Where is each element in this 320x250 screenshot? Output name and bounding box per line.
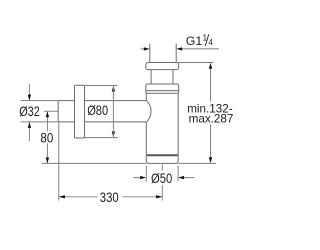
dim Ø50 arrow lines bbox=[133, 177, 194, 179]
arrowhead Ø32 bottom (points up) bbox=[28, 122, 31, 128]
svg-text:Ø80: Ø80 bbox=[87, 103, 108, 118]
trap body outline bbox=[146, 93, 178, 163]
arrowhead Ø32 top (points down) bbox=[28, 95, 31, 101]
union nut flange 1 (top) bbox=[146, 63, 179, 70]
extension line from pipe end down to 330 dim bbox=[58, 122, 60, 200]
bottom extension line right of body bbox=[179, 162, 217, 164]
center extension line below body bbox=[161, 164, 163, 200]
neck between flanges bbox=[151, 70, 173, 84]
inlet tailpiece pipe (top) bbox=[150, 44, 176, 63]
dim 80: centerline tick bbox=[44, 110, 58, 112]
dim 80: vertical dimension line bbox=[46, 112, 48, 164]
dim Ø80 extension lines bbox=[85, 86, 118, 138]
horizontal outlet pipe bbox=[58, 101, 146, 122]
wall escutcheon flange bbox=[75, 85, 85, 138]
dim min/max: top extension line bbox=[179, 62, 214, 64]
svg-text:G1: G1 bbox=[186, 34, 203, 48]
bottom extension line left of body bbox=[42, 162, 146, 164]
dim min/max: vertical dimension line bbox=[210, 64, 212, 163]
arrowhead Ø50 left (points right) bbox=[140, 176, 146, 179]
dim Ø80 vertical dimension line bbox=[112, 86, 114, 137]
dim 330 line bbox=[59, 196, 161, 198]
dim G: right leader line bbox=[182, 48, 220, 50]
arrowhead Ø80 bottom (points down) bbox=[112, 132, 115, 138]
dim G: left stub line bbox=[141, 48, 145, 50]
dim Ø50 extension ticks below body edges bbox=[146, 166, 178, 182]
svg-text:Ø32: Ø32 bbox=[19, 104, 40, 119]
arrowhead 80 top (points up) bbox=[46, 111, 49, 117]
arrowhead G right (points left) bbox=[176, 47, 182, 50]
cup joint thick line bbox=[147, 154, 178, 156]
union nut flange 2 bbox=[146, 84, 179, 93]
arrowhead Ø50 right (points left) bbox=[178, 176, 184, 179]
svg-text:Ø50: Ø50 bbox=[151, 171, 173, 186]
svg-text:80: 80 bbox=[40, 130, 53, 145]
dim Ø32 arrow tails bbox=[28, 84, 30, 141]
arrowhead minmax top (points up) bbox=[209, 63, 212, 69]
arrowhead G left (points right) bbox=[144, 47, 150, 50]
union nut flange 2 inner line bbox=[146, 90, 178, 92]
arrowhead 330 left (points left) bbox=[59, 195, 65, 198]
svg-text:max.287: max.287 bbox=[189, 113, 234, 126]
dim Ø32 extension lines bbox=[21, 101, 59, 122]
arrowhead minmax bottom (points down) bbox=[209, 157, 212, 163]
ball joint dome arc at pipe-body junction bbox=[146, 100, 151, 122]
label G1 1/4 bbox=[186, 32, 214, 48]
svg-text:4: 4 bbox=[209, 38, 214, 47]
svg-text:330: 330 bbox=[100, 190, 119, 205]
arrowhead Ø80 top (points up) bbox=[112, 86, 115, 92]
arrowhead 80 bottom (points down) bbox=[46, 158, 49, 164]
arrowhead 330 right (points right) bbox=[156, 195, 162, 198]
